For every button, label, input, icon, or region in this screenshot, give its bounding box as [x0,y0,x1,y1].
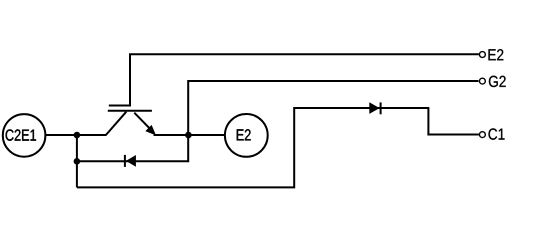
IGBT Q2 body bar [108,110,152,112]
diode D2 cathode bar [380,102,382,114]
junction node collector/C2E1 [74,132,81,139]
junction node diode row [74,158,81,165]
wire freewheel diode row [77,135,188,161]
IGBT Q2 collector slant [106,112,126,135]
label E2 sense [237,129,251,140]
IGBT Q2 emitter slant [134,113,150,130]
wire emitter node up to G2 rail and to terminal G2 [188,81,478,135]
diode D2 triangle pointing right [369,102,379,114]
label E2 terminal [489,49,504,60]
wire gate lead up to top rail and to terminal E2 [130,54,479,105]
terminal pin circle C1 [479,132,485,138]
label G2 terminal [489,76,506,87]
aux emitter sense circle E2 [225,114,268,157]
wire left vertical C2E1 node down [76,135,78,187]
terminal circle C2E1 [3,114,46,157]
diode D1 cathode bar [124,155,126,167]
junction node emitter [185,132,192,139]
wire bottom rail to diode D2 to terminal C1 [77,108,479,187]
diode D1 triangle pointing left [126,155,136,167]
terminal pin circle G2 [479,78,485,84]
IGBT Q2 emitter arrowhead [146,126,155,134]
wire C2E1 to collector slant [46,134,107,136]
IGBT Q2 gate plate line [109,105,131,107]
label C1 terminal [489,128,505,139]
terminal pin circle E2 [479,52,485,58]
label C2E1 [6,129,36,140]
wire emitter to E2 sense circle [154,134,225,136]
